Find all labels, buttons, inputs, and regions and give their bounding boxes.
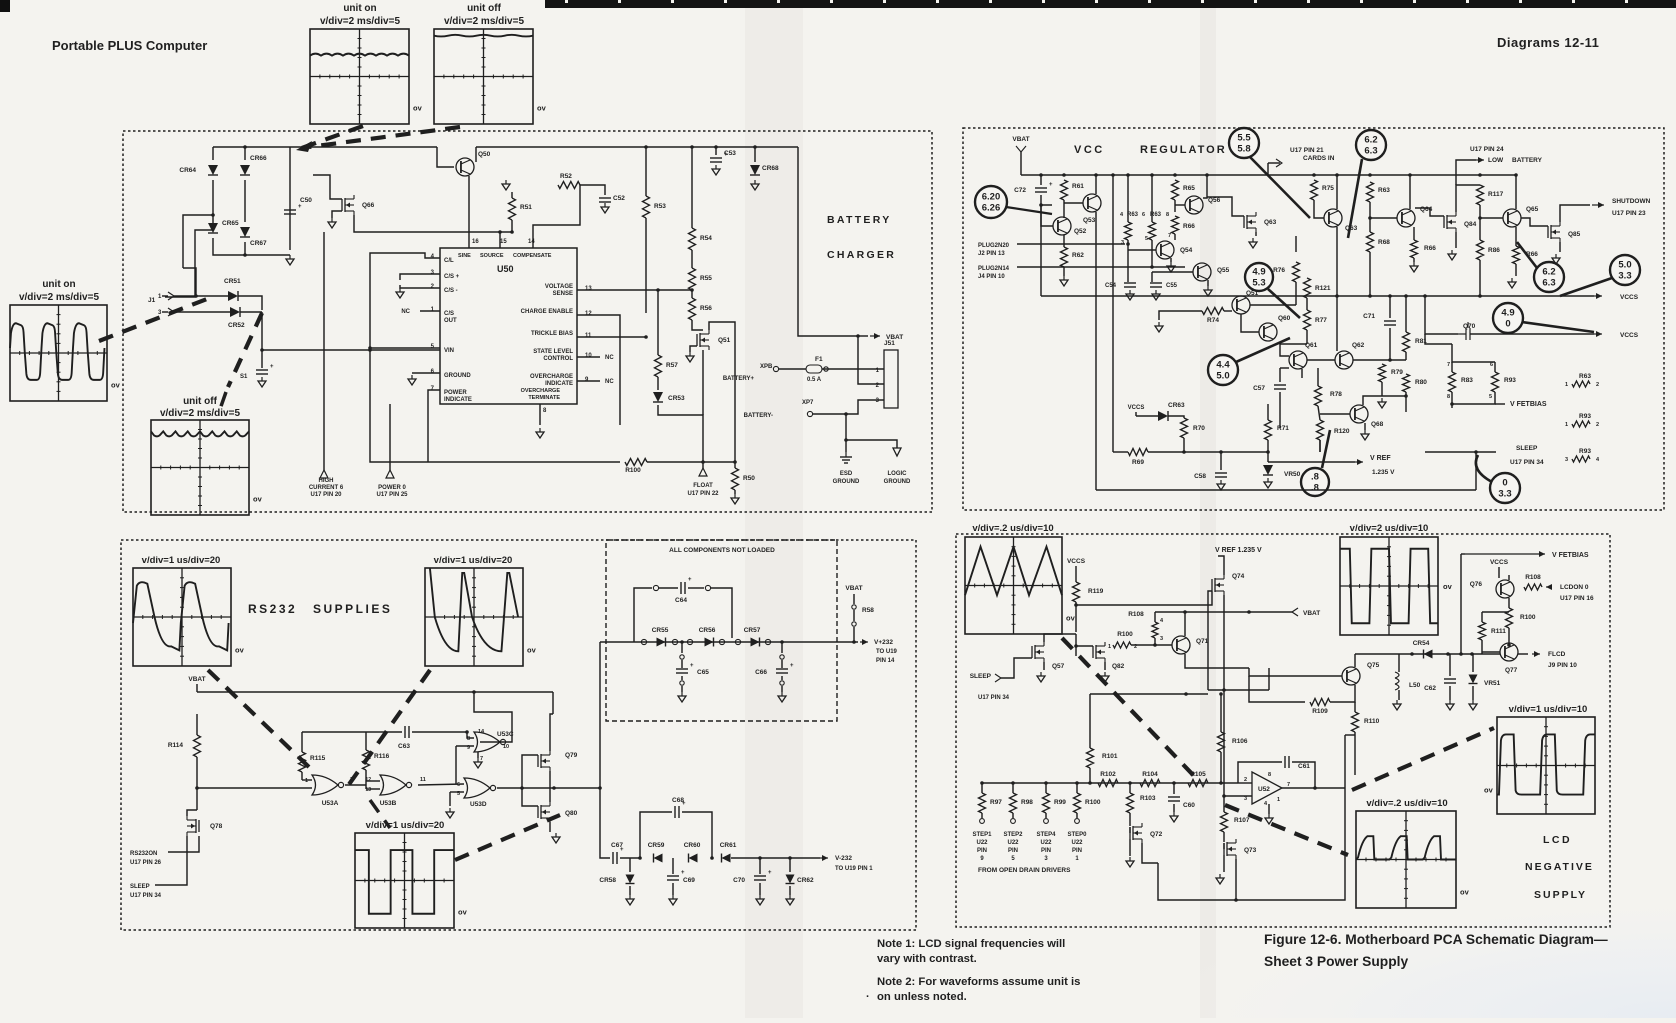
- svg-text:Q52: Q52: [1074, 228, 1087, 235]
- label VCCS arrow: [1594, 295, 1602, 297]
- svg-text:12: 12: [585, 311, 592, 317]
- svg-text:POWER: POWER: [444, 390, 467, 396]
- ground C62: [1449, 700, 1451, 704]
- svg-text:R98: R98: [1021, 799, 1033, 806]
- ground Q63: [1255, 232, 1257, 236]
- lcd input rail: [982, 782, 1238, 784]
- svg-text:PIN: PIN: [1072, 848, 1082, 854]
- svg-text:R69: R69: [1132, 459, 1144, 466]
- transistor Q63 mosfet: [1243, 216, 1245, 228]
- diode CR61: [710, 856, 714, 860]
- resistor R70: [1181, 418, 1188, 438]
- svg-text:ov: ov: [1443, 582, 1453, 591]
- svg-text:STEP2: STEP2: [1003, 832, 1023, 838]
- resistor R65: [1172, 180, 1179, 200]
- svg-text:U17 PIN 34: U17 PIN 34: [130, 893, 162, 899]
- svg-text:Q51: Q51: [1246, 290, 1259, 297]
- resistor R76: [1293, 262, 1300, 282]
- svg-text:+: +: [690, 663, 694, 669]
- svg-text:6.26: 6.26: [982, 203, 1001, 214]
- wire Q63 collector down: [1336, 227, 1338, 296]
- ground C66: [781, 692, 783, 696]
- zener VR50: [1263, 465, 1273, 475]
- svg-text:C57: C57: [1253, 385, 1265, 392]
- svg-text:R53: R53: [654, 203, 666, 210]
- svg-text:REGULATOR: REGULATOR: [1140, 144, 1227, 156]
- svg-text:C72: C72: [1014, 187, 1026, 194]
- capacitor C60: [1172, 781, 1176, 785]
- svg-text:CHARGE ENABLE: CHARGE ENABLE: [521, 309, 573, 315]
- svg-text:C/S: C/S: [444, 311, 454, 317]
- svg-text:TRICKLE BIAS: TRICKLE BIAS: [531, 331, 573, 337]
- diode CR65: [208, 223, 218, 233]
- svg-text:10: 10: [503, 744, 509, 750]
- svg-text:NC: NC: [605, 379, 614, 385]
- svg-text:R102: R102: [1100, 771, 1116, 778]
- svg-text:CURRENT 6: CURRENT 6: [309, 485, 344, 491]
- capacitor C66: [780, 640, 784, 644]
- svg-text:TERMINATE: TERMINATE: [528, 395, 560, 401]
- svg-text:1: 1: [1565, 382, 1568, 388]
- svg-text:Q79: Q79: [565, 752, 578, 759]
- vccs rail: [1041, 295, 1594, 297]
- capacitor C53: [714, 145, 718, 149]
- svg-text:CR67: CR67: [250, 240, 267, 247]
- svg-text:unit off: unit off: [183, 396, 218, 407]
- svg-text:R97: R97: [990, 799, 1002, 806]
- svg-text:C70: C70: [733, 877, 745, 884]
- diode CR56: [705, 638, 714, 647]
- capacitor C50: [289, 165, 291, 250]
- svg-text:R108: R108: [1128, 611, 1144, 618]
- mosfet Q57: [1031, 646, 1033, 658]
- svg-text:VBAT: VBAT: [1012, 136, 1029, 143]
- not loaded enclosure: [606, 540, 837, 721]
- pointer dash from inset B: [309, 127, 460, 147]
- svg-text:R100: R100: [1117, 631, 1133, 638]
- U53D output wire: [497, 787, 554, 789]
- svg-text:J4 PIN 10: J4 PIN 10: [978, 274, 1005, 280]
- lcd mid rail: [1208, 689, 1269, 691]
- scope inset E sawtooth waveform: [133, 568, 231, 666]
- svg-text:R93: R93: [1504, 377, 1516, 384]
- scope inset H triangle waveform: [965, 537, 1062, 634]
- transistor Q51b: [1232, 296, 1250, 314]
- svg-text:Q72: Q72: [1150, 831, 1163, 838]
- svg-text:Sheet 3 Power Supply: Sheet 3 Power Supply: [1264, 954, 1408, 969]
- ground C65: [681, 692, 683, 696]
- resistor R100c: [1508, 598, 1510, 608]
- label VBAT lcd arrow: [1292, 608, 1298, 616]
- svg-text:CHARGER: CHARGER: [827, 249, 896, 261]
- lcd top mid rail 2: [1268, 668, 1270, 690]
- svg-text:HIGH: HIGH: [319, 478, 334, 484]
- U50 pin 9 NC: [577, 380, 600, 382]
- capacitor S1 filter: [260, 348, 264, 352]
- label LCDON arrow: [1546, 586, 1552, 588]
- resistor R104: [1140, 780, 1160, 787]
- svg-text:CR54: CR54: [1413, 640, 1430, 647]
- capacitor C67: [612, 852, 614, 864]
- svg-text:Q70: Q70: [1463, 323, 1476, 330]
- resistor R119: [1073, 582, 1080, 602]
- transistor Q76: [1496, 580, 1514, 598]
- svg-text:F1: F1: [815, 356, 823, 363]
- svg-text:C63: C63: [398, 743, 410, 750]
- svg-text:+: +: [688, 577, 692, 583]
- svg-text:PIN: PIN: [1008, 848, 1018, 854]
- capacitor C57: [1279, 368, 1281, 382]
- svg-text:Q63: Q63: [1264, 219, 1277, 226]
- svg-text:V FETBIAS: V FETBIAS: [1510, 401, 1547, 408]
- svg-text:v/div=1 us/div=10: v/div=1 us/div=10: [1509, 704, 1588, 715]
- resistor R121: [1304, 278, 1311, 298]
- U50 pin 11 wire: [577, 336, 646, 338]
- svg-text:Q84: Q84: [1464, 221, 1477, 228]
- svg-text:ov: ov: [1484, 786, 1494, 795]
- svg-text:VCCS: VCCS: [1620, 332, 1639, 339]
- scope inset I square waveform: [1340, 537, 1438, 635]
- svg-text:2: 2: [1596, 422, 1599, 428]
- svg-text:C62: C62: [1424, 685, 1436, 692]
- resistor R114: [194, 735, 201, 757]
- wire bridge mid: [212, 180, 214, 215]
- circled gain 6.2 6.3 left: [1356, 130, 1386, 160]
- svg-text:Q85: Q85: [1568, 231, 1581, 238]
- svg-text:L50: L50: [1409, 682, 1421, 689]
- svg-text:CR51: CR51: [224, 278, 241, 285]
- mosfet Q79: [537, 755, 539, 767]
- svg-text:J1: J1: [148, 297, 156, 304]
- svg-text:R61: R61: [1072, 183, 1084, 190]
- label VBAT arrow: [858, 335, 868, 337]
- svg-text:R50: R50: [743, 475, 755, 482]
- svg-text:R68: R68: [1378, 239, 1390, 246]
- resistor R55: [691, 250, 693, 268]
- svg-text:C65: C65: [697, 669, 709, 676]
- wire to float: [702, 350, 704, 415]
- resistor R111: [1479, 622, 1486, 640]
- scope inset K pulse waveform: [1356, 811, 1456, 908]
- svg-text:R115: R115: [310, 755, 326, 762]
- U50 pin 12 wire: [577, 315, 620, 425]
- svg-text:R117: R117: [1488, 191, 1504, 198]
- resistor R66c: [1515, 227, 1517, 246]
- capacitor C58: [1219, 450, 1223, 454]
- transistor Q52: [1053, 217, 1071, 235]
- svg-text:R86: R86: [1488, 247, 1500, 254]
- svg-text:VCCS: VCCS: [1128, 405, 1145, 411]
- svg-text:C61: C61: [1298, 763, 1310, 770]
- svg-text:POWER 0: POWER 0: [378, 485, 406, 491]
- svg-text:PLUG2N14: PLUG2N14: [978, 266, 1010, 272]
- wire J1 to VIN rail: [262, 312, 440, 350]
- resistor R107: [1223, 796, 1225, 812]
- svg-text:VCCS: VCCS: [1490, 559, 1509, 566]
- capacitor C54: [1127, 278, 1129, 282]
- wire vfet: [1459, 652, 1463, 656]
- svg-text:C69: C69: [683, 877, 695, 884]
- svg-text:vary with contrast.: vary with contrast.: [877, 953, 977, 965]
- svg-text:CR53: CR53: [668, 395, 685, 402]
- svg-text:5.8: 5.8: [1237, 144, 1250, 155]
- svg-text:7: 7: [480, 756, 483, 762]
- svg-text:15: 15: [500, 239, 507, 245]
- svg-text:C/S -: C/S -: [444, 288, 458, 294]
- svg-text:R63: R63: [1378, 187, 1390, 194]
- pointer dash to K: [1425, 715, 1492, 762]
- svg-text:Diagrams 12-11: Diagrams 12-11: [1497, 35, 1599, 50]
- label HIGH CURRENT U17 PIN 20: [323, 232, 325, 470]
- resistor R97: [980, 781, 984, 785]
- svg-text:13: 13: [585, 286, 592, 292]
- transistor Q77: [1500, 643, 1518, 661]
- capacitor C72: [1040, 175, 1042, 185]
- diode CR64: [212, 147, 214, 160]
- mosfet Q82: [1092, 646, 1094, 658]
- svg-text:VOLTAGE: VOLTAGE: [545, 284, 573, 290]
- svg-text:Q80: Q80: [565, 810, 578, 817]
- svg-text:ALL COMPONENTS NOT LOADED: ALL COMPONENTS NOT LOADED: [669, 547, 775, 554]
- label V+232 arrow: [860, 641, 868, 643]
- svg-text:11: 11: [420, 777, 426, 783]
- svg-text:CR60: CR60: [684, 842, 701, 849]
- label V-232 arrow: [820, 857, 828, 859]
- svg-text:CR63: CR63: [1168, 402, 1185, 409]
- ground below C50: [289, 255, 291, 259]
- svg-text:C52: C52: [613, 195, 625, 202]
- svg-text:CR58: CR58: [599, 877, 616, 884]
- svg-text:CONTROL: CONTROL: [543, 356, 573, 362]
- circled gain 5.5 5.8: [1229, 128, 1259, 158]
- svg-text:Note 2: For waveforms assume u: Note 2: For waveforms assume unit is: [877, 976, 1080, 988]
- svg-text:ov: ov: [1460, 887, 1470, 896]
- svg-text:S1: S1: [240, 374, 248, 380]
- U53C output wire: [474, 692, 512, 742]
- ground Q73: [1223, 855, 1225, 872]
- pointer dash F to gate: [345, 670, 430, 790]
- resistor R79: [1379, 364, 1386, 382]
- svg-text:R71: R71: [1277, 425, 1289, 432]
- ground pin2/3: [399, 288, 401, 292]
- svg-text:U17 PIN 25: U17 PIN 25: [376, 492, 408, 498]
- svg-text:SUPPLIES: SUPPLIES: [313, 602, 392, 616]
- svg-text:unit on: unit on: [343, 3, 376, 14]
- svg-text:3: 3: [1160, 636, 1163, 642]
- transistor Q50: [437, 147, 454, 167]
- transistor Q66: [341, 199, 343, 211]
- nor gate U53C: [474, 732, 500, 752]
- svg-text:R80: R80: [1415, 379, 1427, 386]
- svg-text:R78: R78: [1330, 391, 1342, 398]
- scope inset A unit on waveform: [310, 29, 409, 124]
- svg-text:R51: R51: [520, 204, 532, 211]
- svg-text:CR59: CR59: [648, 842, 665, 849]
- pointer dash from inset A: [299, 126, 363, 149]
- svg-text:5.3: 5.3: [1252, 278, 1265, 289]
- ground Q57: [1043, 662, 1045, 670]
- svg-text:14: 14: [528, 239, 535, 245]
- svg-text:Q66: Q66: [362, 202, 375, 209]
- svg-text:2: 2: [1596, 382, 1599, 388]
- svg-text:v/div=1 us/div=20: v/div=1 us/div=20: [366, 820, 445, 831]
- svg-text:6.20: 6.20: [982, 192, 1001, 203]
- lcd bottom wire: [1158, 788, 1345, 900]
- svg-text:SINE: SINE: [458, 253, 471, 259]
- diode CR52: [174, 311, 230, 313]
- svg-text:CR66: CR66: [250, 155, 267, 162]
- ground Q51 gate: [690, 346, 697, 352]
- ground Q80: [549, 822, 551, 832]
- resistor R116: [363, 750, 370, 770]
- svg-text:C66: C66: [755, 669, 767, 676]
- svg-text:C50: C50: [300, 197, 312, 204]
- svg-text:.8: .8: [1311, 472, 1319, 483]
- diode CR55: [657, 638, 666, 647]
- svg-text:+: +: [298, 204, 302, 210]
- svg-text:Q51: Q51: [718, 337, 731, 344]
- svg-text:unit off: unit off: [467, 3, 502, 14]
- svg-text:v/div=2 ms/div=5: v/div=2 ms/div=5: [320, 16, 400, 27]
- svg-text:CR68: CR68: [762, 165, 779, 172]
- svg-text:11: 11: [585, 333, 592, 339]
- svg-text:R83: R83: [1461, 377, 1473, 384]
- svg-text:R75: R75: [1322, 185, 1334, 192]
- ground below R62: [1063, 267, 1065, 276]
- resistor R115: [299, 752, 306, 772]
- svg-text:U22: U22: [1040, 840, 1052, 846]
- svg-text:v/div=.2 us/div=10: v/div=.2 us/div=10: [1366, 798, 1447, 809]
- svg-text:V REF: V REF: [1370, 455, 1391, 462]
- svg-text:5.5: 5.5: [1237, 133, 1251, 144]
- ground Q84: [1455, 232, 1457, 248]
- svg-text:+: +: [270, 364, 274, 370]
- resistor R100d: [1075, 781, 1079, 785]
- IC U50 battery charger controller: [440, 248, 577, 404]
- ground Q54: [1170, 258, 1172, 262]
- label V FETBIAS vcc: [1451, 404, 1453, 408]
- svg-text:+: +: [790, 663, 794, 669]
- svg-text:R93: R93: [1579, 448, 1591, 455]
- svg-text:OVERCHARGE: OVERCHARGE: [530, 374, 573, 380]
- mosfet Q70: [1425, 296, 1458, 334]
- capacitor C71: [1389, 296, 1391, 318]
- ground Q82: [1104, 662, 1106, 670]
- svg-text:v/div=2 ms/div=5: v/div=2 ms/div=5: [444, 16, 524, 27]
- svg-text:CR62: CR62: [797, 877, 814, 884]
- svg-text:INDICATE: INDICATE: [444, 397, 472, 403]
- svg-text:Q65: Q65: [1526, 206, 1539, 213]
- wire q61 base: [1280, 344, 1307, 356]
- resistor R77: [1304, 310, 1311, 330]
- U50 pin 1 NC: [420, 310, 440, 312]
- svg-text:CR64: CR64: [179, 167, 196, 174]
- svg-text:R58: R58: [862, 607, 874, 614]
- resistor R50: [734, 355, 736, 468]
- svg-text:FLOAT: FLOAT: [693, 483, 713, 489]
- rs232 supplies enclosure: [121, 540, 916, 930]
- svg-text:R109: R109: [1312, 708, 1328, 715]
- ground VR51: [1472, 700, 1474, 704]
- svg-text:C54: C54: [1105, 283, 1117, 289]
- svg-text:BATTERY-: BATTERY-: [744, 413, 773, 419]
- svg-text:C64: C64: [675, 597, 687, 604]
- flcd rail: [1355, 653, 1500, 655]
- resistor R62: [1063, 235, 1065, 247]
- ground below Q66: [331, 218, 333, 222]
- scope inset J pulse waveform: [1497, 717, 1595, 814]
- capacitor C55: [1151, 272, 1153, 282]
- svg-text:R110: R110: [1364, 718, 1380, 725]
- svg-text:BATTERY: BATTERY: [827, 214, 892, 226]
- svg-text:6.2: 6.2: [1364, 135, 1377, 146]
- transistor Q62: [1335, 351, 1353, 369]
- svg-text:8: 8: [1268, 772, 1271, 778]
- battery charger enclosure: [123, 131, 932, 512]
- svg-text:4.4: 4.4: [1216, 360, 1230, 371]
- svg-text:R111: R111: [1491, 628, 1506, 635]
- ground pin8: [539, 428, 541, 432]
- svg-text:0: 0: [1502, 478, 1507, 489]
- svg-text:R93: R93: [1579, 413, 1591, 420]
- svg-text:C55: C55: [1166, 283, 1178, 289]
- circled gain 5.0 3.3: [1610, 255, 1640, 285]
- wire bridge bottom: [213, 238, 290, 255]
- U50 pin 7 wire: [428, 390, 440, 415]
- svg-text:R101: R101: [1102, 753, 1118, 760]
- svg-text:R114: R114: [168, 742, 184, 749]
- svg-text:ov: ov: [111, 381, 121, 390]
- capacitor C63: [302, 731, 402, 733]
- circled gain 4.9 5.3: [1245, 263, 1273, 291]
- svg-text:Q64: Q64: [1420, 206, 1433, 213]
- mosfet Q80: [537, 806, 539, 818]
- svg-text:U22: U22: [1071, 840, 1083, 846]
- ground S1: [261, 377, 263, 381]
- U50 pin 5 wire VIN: [370, 347, 440, 349]
- svg-text:R99: R99: [1054, 799, 1066, 806]
- resistor R74: [1202, 308, 1224, 315]
- ground C70: [759, 895, 761, 899]
- inductor L50: [1398, 654, 1400, 672]
- svg-text:1: 1: [1565, 422, 1568, 428]
- svg-text:+: +: [768, 870, 772, 876]
- circled gain 6.20 6.26: [975, 186, 1007, 218]
- U50 pin 4 wire: [370, 253, 440, 350]
- svg-text:RS232ON: RS232ON: [130, 851, 157, 857]
- svg-text:R66: R66: [1183, 223, 1195, 230]
- svg-text:R55: R55: [700, 275, 712, 282]
- ground R66b: [1413, 258, 1415, 262]
- svg-text:on unless noted.: on unless noted.: [877, 991, 967, 1003]
- svg-text:LOW: LOW: [1488, 157, 1504, 164]
- transistor Q63b: [1324, 209, 1342, 227]
- resistor R68: [1367, 232, 1374, 252]
- svg-text:Q50: Q50: [478, 151, 491, 158]
- svg-text:PIN: PIN: [1041, 848, 1051, 854]
- svg-text:Q53: Q53: [1083, 217, 1096, 224]
- svg-text:R120: R120: [1334, 428, 1350, 435]
- zener CR62: [789, 858, 791, 872]
- svg-text:3.3: 3.3: [1618, 271, 1631, 282]
- svg-text:NEGATIVE: NEGATIVE: [1525, 861, 1594, 873]
- svg-text:R100: R100: [1520, 614, 1536, 621]
- svg-text:SLEEP: SLEEP: [1516, 445, 1538, 452]
- wire to v-232 chain: [600, 788, 610, 858]
- zener VR51: [1472, 654, 1474, 672]
- U50 pin 10 NC: [577, 356, 600, 358]
- svg-text:ov: ov: [413, 104, 423, 113]
